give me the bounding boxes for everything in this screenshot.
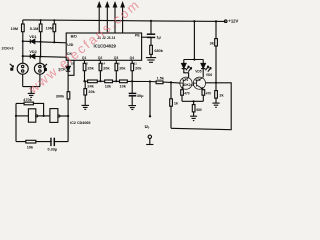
wire preset input J3 arrow	[113, 3, 116, 33]
wire clock chain vertical	[67, 57, 69, 116]
node oscillator input junction	[15, 115, 17, 117]
svg-text:20k: 20k	[119, 67, 126, 71]
ground (20k terminator)	[82, 105, 90, 109]
diode VD2	[29, 50, 36, 58]
svg-text:470: 470	[206, 91, 212, 95]
diode VD3 2CK	[58, 66, 70, 71]
svg-text:10k: 10k	[120, 85, 127, 89]
ground (30u cap)	[128, 106, 136, 110]
node emitter junction	[193, 100, 195, 102]
resistor 20k (a) with IC stub	[83, 60, 94, 81]
svg-text:300k: 300k	[56, 95, 65, 99]
resistor 470k	[23, 98, 33, 105]
svg-text:+12V: +12V	[228, 19, 238, 24]
capacitor 30u	[129, 81, 144, 105]
svg-text:Q4: Q4	[130, 56, 135, 60]
svg-text:2CK×3: 2CK×3	[2, 47, 14, 51]
svg-text:10k: 10k	[27, 146, 34, 150]
wire left column A	[22, 20, 24, 63]
wire U0 output drop	[149, 82, 151, 117]
ground (680)	[190, 116, 197, 120]
wire +12V top rail	[23, 20, 226, 22]
wire preset input J1 arrow	[98, 3, 101, 33]
node LED bus junction	[193, 58, 195, 60]
wire preset input J4 arrow	[121, 3, 124, 33]
wire IC pin jog to clock chain	[68, 60, 74, 75]
svg-text:PE: PE	[135, 34, 140, 38]
resistor 20k (terminator)	[84, 81, 96, 105]
resistor 300k	[56, 92, 70, 99]
inverter gate 1	[28, 109, 37, 122]
resistor 680k	[150, 45, 164, 54]
wire gate2 output	[60, 115, 68, 117]
wire microphone bottom bus	[23, 86, 40, 88]
svg-text:VT1: VT1	[182, 78, 188, 82]
svg-text:1.5k: 1.5k	[157, 76, 165, 80]
wire DAC summing bus	[85, 81, 180, 83]
capacitor 0.33u	[48, 138, 58, 152]
node collector junction	[215, 82, 217, 84]
resistor R 10M (col C)	[46, 24, 56, 32]
svg-text:IC2 CD4069: IC2 CD4069	[70, 121, 90, 125]
resistor 1.5k	[156, 76, 165, 83]
svg-text:1μ: 1μ	[156, 35, 161, 39]
node junctions on VD2 row	[22, 55, 42, 58]
LED VD6	[201, 60, 212, 78]
resistor 470 (VT2 emitter)	[202, 89, 211, 101]
resistor 680	[192, 101, 202, 116]
svg-text:VD6: VD6	[206, 73, 212, 77]
svg-text:10M: 10M	[11, 27, 18, 31]
resistor 20k (d)	[131, 60, 142, 81]
wire base feed left edge drop	[170, 82, 172, 128]
node rail junctions	[40, 19, 218, 22]
wire left column B	[39, 20, 42, 63]
svg-text:B/D: B/D	[71, 35, 78, 39]
svg-text:VD2: VD2	[29, 50, 36, 54]
resistor 10k (osc)	[26, 140, 36, 149]
wire PE reset	[142, 36, 151, 38]
wire LED top bus	[184, 59, 203, 61]
svg-text:Q2: Q2	[98, 56, 103, 60]
wire emitter join	[182, 100, 203, 102]
wire VD2 row	[23, 56, 68, 57]
wire gate1-gate2	[38, 115, 50, 117]
wire oscillator bottom	[16, 141, 68, 143]
svg-text:20k: 20k	[135, 67, 142, 71]
wire VD1 row	[23, 41, 66, 43]
ground (microphones)	[28, 87, 35, 98]
svg-text:13k: 13k	[105, 85, 112, 89]
wire 3k drop from rail	[215, 21, 217, 82]
resistor 3k	[210, 39, 218, 46]
svg-text:11: 11	[134, 62, 137, 66]
op-amp U1 : IC1 CD4029 counter box	[66, 33, 141, 66]
resistor 470 (VT1 emitter)	[181, 89, 190, 101]
svg-text:20k: 20k	[88, 90, 95, 94]
wire LED drop from rail	[193, 21, 195, 59]
wire gate1 input	[16, 115, 28, 117]
inverter gate 2	[50, 109, 60, 123]
svg-text:Q3: Q3	[114, 56, 119, 60]
svg-text:20k: 20k	[103, 67, 110, 71]
wire POR drop from rail	[150, 21, 152, 34]
transistor VT2	[193, 77, 205, 89]
resistor 20k (c)	[115, 60, 126, 81]
svg-text:470: 470	[184, 91, 190, 95]
capacitor 1u	[147, 34, 162, 45]
svg-text:U0: U0	[145, 124, 150, 130]
wire oscillator left edge	[15, 103, 17, 141]
node U0 wire end dot	[149, 115, 151, 117]
svg-text:470k: 470k	[23, 98, 32, 102]
node U0 jack terminal	[146, 135, 153, 144]
svg-text:0.33μ: 0.33μ	[48, 147, 58, 151]
resistor R 5.1M (col B)	[30, 24, 42, 32]
node +12V terminal	[224, 19, 238, 24]
svg-text:680: 680	[196, 108, 202, 112]
resistor 2k	[215, 83, 225, 103]
svg-text:VD1: VD1	[29, 35, 36, 39]
svg-text:680k: 680k	[154, 49, 163, 53]
wire preset input J2 arrow	[106, 3, 109, 33]
svg-text:30μ: 30μ	[137, 94, 144, 98]
resistor R 10M (col A)	[11, 24, 25, 32]
node junctions on VD1 row	[22, 40, 56, 43]
microphone B2	[34, 63, 47, 86]
svg-text:5.1M: 5.1M	[30, 27, 38, 31]
resistor 1k	[170, 99, 179, 106]
svg-text:10M: 10M	[46, 27, 53, 31]
node inter-gate junction	[43, 115, 45, 117]
microphone B1	[10, 63, 28, 86]
svg-text:3DK2×2: 3DK2×2	[182, 83, 194, 87]
svg-text:14: 14	[102, 62, 106, 66]
wire oscillator top feedback	[16, 103, 44, 116]
svg-text:VD5: VD5	[195, 70, 201, 74]
LED VD5	[182, 60, 202, 78]
resistor 20k (b)	[99, 60, 110, 81]
wire oscillator right edge	[67, 116, 69, 142]
svg-text:24k: 24k	[87, 85, 94, 89]
wire left column C	[53, 20, 55, 41]
ground (680k)	[146, 54, 156, 62]
svg-text:VT2: VT2	[195, 78, 201, 82]
resistor 24k	[87, 80, 97, 89]
transistor VT1	[180, 77, 192, 89]
svg-text:20k: 20k	[87, 67, 94, 71]
ground (2k)	[212, 103, 219, 107]
node DAC bus junctions	[83, 80, 172, 83]
resistor 13k	[105, 80, 113, 89]
wire feedback bottom and right edge	[171, 83, 231, 130]
diode VD1	[29, 35, 36, 43]
resistor 10k (chain)	[120, 80, 128, 89]
node clock/oscillator junction	[67, 115, 69, 117]
